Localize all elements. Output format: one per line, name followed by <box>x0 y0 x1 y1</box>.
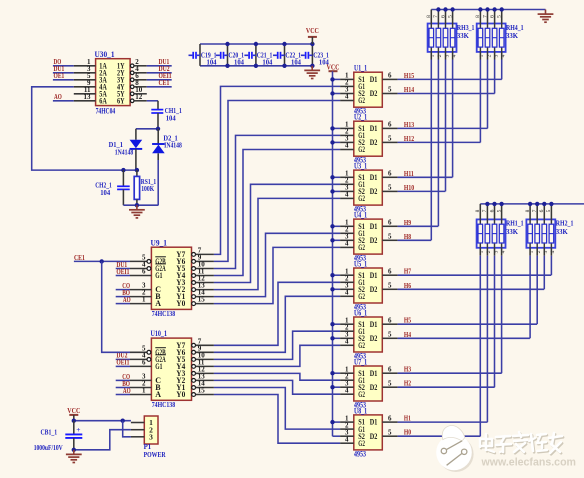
wire RH pin down to H13 <box>487 52 489 128</box>
svg-text:7: 7 <box>482 15 488 18</box>
wire P1 pin3 branch <box>123 421 131 437</box>
junction CB1 ground <box>72 448 76 452</box>
node H9 <box>404 218 411 227</box>
svg-text:U3_1: U3_1 <box>354 162 367 171</box>
wire RH pin down to H5 <box>536 248 538 324</box>
svg-text:H9: H9 <box>404 218 411 227</box>
junction cap bank <box>254 42 258 68</box>
svg-text:1: 1 <box>142 296 146 304</box>
svg-text:8: 8 <box>525 209 531 212</box>
junction VCC at U2 pin1 <box>330 126 334 130</box>
svg-text:G2: G2 <box>358 96 365 105</box>
svg-text:33K: 33K <box>506 31 518 40</box>
wire net H4 <box>398 337 530 339</box>
wire net H1 <box>398 421 488 423</box>
wire RH3/RH4 top rail to ground <box>431 9 545 11</box>
chip U2_1 4953 <box>340 113 398 165</box>
wire RH pin down to H2 <box>494 248 496 387</box>
wire U9 Y0 to U4 G2 <box>214 247 340 303</box>
power VCC main rail symbol <box>327 63 340 72</box>
svg-text:6: 6 <box>388 219 392 227</box>
svg-text:H12: H12 <box>404 134 414 143</box>
wire U9 Y5 to U2 G1 <box>214 135 340 268</box>
svg-text:VCC: VCC <box>306 26 319 35</box>
chip U30_1 74HC04 <box>74 50 147 116</box>
svg-text:+: + <box>76 425 80 434</box>
svg-text:6: 6 <box>388 365 392 373</box>
wire RH pin down to H7 <box>550 248 552 275</box>
node AO <box>53 92 74 101</box>
svg-text:D1: D1 <box>370 271 378 280</box>
svg-text:G2: G2 <box>358 341 365 350</box>
svg-text:104: 104 <box>291 58 301 67</box>
wire net H14 <box>398 93 495 95</box>
resistor network RH4 33K <box>477 23 524 52</box>
wire diode bottom node <box>123 204 158 206</box>
wire U8 S1/S2 to VCC rail <box>333 422 341 436</box>
svg-text:H2: H2 <box>404 379 411 388</box>
wire CE1 to U9 G2B <box>74 260 130 262</box>
watermark elecfans logo <box>436 426 473 472</box>
svg-text:6A: 6A <box>99 96 107 105</box>
ground below CB1 <box>66 450 82 463</box>
capacitor C21_1 104 <box>244 44 272 67</box>
node CE1 out <box>159 78 170 87</box>
wire RH pin down to H14 <box>494 52 496 94</box>
wire net AO to U9 <box>116 303 130 305</box>
svg-text:D1: D1 <box>370 173 378 182</box>
svg-text:OE1: OE1 <box>54 71 65 80</box>
svg-text:H15: H15 <box>404 71 414 80</box>
svg-text:H10: H10 <box>404 183 414 192</box>
svg-text:6: 6 <box>388 170 392 178</box>
chip U9_1 74HC138 <box>130 238 214 318</box>
svg-text:AO: AO <box>123 386 131 395</box>
svg-text:104: 104 <box>100 188 110 197</box>
svg-text:D2: D2 <box>370 432 378 441</box>
svg-text:12: 12 <box>135 93 143 101</box>
node AO <box>123 295 131 304</box>
svg-text:4: 4 <box>345 93 349 101</box>
svg-text:OEI1: OEI1 <box>116 358 129 367</box>
svg-text:IN4148: IN4148 <box>164 142 182 150</box>
node BO <box>122 379 130 388</box>
svg-text:4: 4 <box>345 191 349 199</box>
junction diode top <box>156 127 160 131</box>
capacitor C23_1 104 <box>301 44 329 67</box>
svg-text:D2: D2 <box>370 138 378 147</box>
wire RH pin down to H10 <box>445 52 447 192</box>
junction CE1 <box>100 259 104 263</box>
junction mid rail dots <box>485 202 553 206</box>
resistor network RH1 33K <box>477 219 524 248</box>
svg-text:6: 6 <box>489 15 495 18</box>
svg-text:U10_1: U10_1 <box>151 329 168 338</box>
capacitor CH1_1 104 <box>151 106 182 122</box>
node H10 <box>404 183 414 192</box>
wire RH pin down to H3 <box>501 248 503 373</box>
wire RH1/RH2 top rail <box>480 203 584 205</box>
svg-text:U2_1: U2_1 <box>354 113 367 122</box>
svg-text:4: 4 <box>345 338 349 346</box>
svg-text:1N4148: 1N4148 <box>115 148 134 156</box>
svg-text:D1: D1 <box>370 75 378 84</box>
node OE1 <box>54 71 65 80</box>
svg-text:33K: 33K <box>556 227 568 236</box>
svg-text:G1: G1 <box>155 362 162 371</box>
wire net AO to U10 <box>116 394 130 396</box>
junction VCC at U2 pin3 <box>330 140 334 144</box>
wire U10 Y1 to U8 G1 <box>214 388 340 430</box>
svg-text:13: 13 <box>84 93 92 101</box>
wire RH pin down to H9 <box>437 52 439 226</box>
svg-text:G2: G2 <box>358 292 365 301</box>
node H6 <box>404 281 411 290</box>
chip U7_1 4953 <box>340 358 398 410</box>
wire RH pin down to H0 <box>479 248 481 436</box>
svg-text:104: 104 <box>207 58 217 67</box>
svg-text:U5_1: U5_1 <box>354 260 367 269</box>
wire net H3 <box>398 372 502 374</box>
svg-text:8: 8 <box>426 15 432 18</box>
svg-text:H5: H5 <box>404 316 411 325</box>
svg-text:U30_1: U30_1 <box>95 50 115 59</box>
svg-text:5: 5 <box>496 209 502 212</box>
pin numbers RH2 top <box>525 209 552 212</box>
junction VCC at U8 pin1 <box>330 420 334 424</box>
wire VCC rail <box>332 71 334 436</box>
svg-text:4: 4 <box>345 240 349 248</box>
svg-text:U6_1: U6_1 <box>354 309 367 318</box>
wire net H10 <box>398 190 446 192</box>
wire RH pin down to H11 <box>452 52 454 177</box>
svg-text:74HC04: 74HC04 <box>96 107 116 116</box>
wire net OEI1 to U9 <box>116 275 130 277</box>
svg-text:D2: D2 <box>370 334 378 343</box>
wire U30 input nets DO/DU1/OE1 <box>53 66 74 80</box>
node DU2 <box>116 351 127 360</box>
capacitor C19_1 104 <box>189 44 217 67</box>
wire U10 Y2 to U7 G2 <box>214 380 340 394</box>
svg-text:6: 6 <box>440 15 446 18</box>
svg-text:G2: G2 <box>358 439 365 448</box>
svg-text:5: 5 <box>388 184 392 192</box>
svg-text:U7_1: U7_1 <box>354 358 367 367</box>
chip U6_1 4953 <box>340 309 398 361</box>
svg-text:5: 5 <box>388 86 392 94</box>
svg-text:AO: AO <box>54 92 62 101</box>
node AO <box>123 386 131 395</box>
svg-text:U1_1: U1_1 <box>354 64 367 73</box>
wire U9 Y2 to U3 G2 <box>214 198 340 289</box>
svg-text:6Y: 6Y <box>117 96 125 105</box>
wire U9 Y6 to U1 G2 <box>214 101 340 262</box>
power VCC bottom left <box>67 406 80 415</box>
wire net H0 <box>398 435 481 437</box>
diode D2_1 IN4148 <box>152 129 182 205</box>
junction VCC at U5 pin1 <box>330 273 334 277</box>
wire RH pin down to H4 <box>529 248 531 338</box>
node DO <box>54 57 62 66</box>
node H1 <box>404 414 411 423</box>
wire U6 S1/S2 to VCC rail <box>333 324 341 338</box>
chip U3_1 4953 <box>340 162 398 214</box>
wire U10 Y7 to U5 G1 <box>214 282 340 345</box>
svg-text:104: 104 <box>234 58 244 67</box>
node BO <box>122 288 130 297</box>
junction P1 branch <box>121 419 125 423</box>
wire cap bank bottom rail <box>200 65 312 67</box>
svg-text:H11: H11 <box>404 169 414 178</box>
svg-text:6: 6 <box>142 358 146 366</box>
svg-text:POWER: POWER <box>144 450 166 459</box>
pin numbers RH4 bottom <box>479 54 506 57</box>
wire RH pin down to H1 <box>486 248 488 422</box>
svg-text:8: 8 <box>475 15 481 18</box>
chip U8_1 4953 <box>340 406 398 458</box>
wire U1 S1/S2 to VCC rail <box>333 79 341 93</box>
junction cap bank <box>310 42 314 68</box>
svg-text:74HC138: 74HC138 <box>152 309 176 318</box>
wire RH pin down to H8 <box>430 52 432 240</box>
wire net H7 <box>398 274 552 276</box>
node H12 <box>404 134 414 143</box>
svg-text:100K: 100K <box>141 184 154 193</box>
svg-text:4: 4 <box>345 386 349 394</box>
node H5 <box>404 316 411 325</box>
svg-text:5: 5 <box>546 209 552 212</box>
svg-text:7: 7 <box>482 209 488 212</box>
svg-text:5: 5 <box>388 331 392 339</box>
wire U9 Y1 to U4 G1 <box>214 233 340 296</box>
svg-text:4: 4 <box>345 142 349 150</box>
junction VCC at U3 pin3 <box>330 189 334 193</box>
svg-text:H1: H1 <box>404 414 411 423</box>
node CO <box>122 372 130 381</box>
svg-text:15: 15 <box>198 387 206 395</box>
wire net H9 <box>398 225 439 227</box>
junction VCC CB1 <box>72 419 76 423</box>
wire net DU1 to U9 <box>116 268 130 270</box>
node H13 <box>404 120 414 129</box>
svg-text:Y0: Y0 <box>176 299 185 308</box>
junction VCC at U4 pin1 <box>330 224 334 228</box>
wire net CO to U9 <box>116 289 130 291</box>
ground below C23 <box>304 66 320 79</box>
svg-text:33K: 33K <box>506 227 518 236</box>
svg-text:H8: H8 <box>404 232 411 241</box>
junction VCC at U6 pin3 <box>330 336 334 340</box>
node DU2 out <box>159 64 170 73</box>
node H0 <box>404 428 411 437</box>
svg-text:G2: G2 <box>358 243 365 252</box>
capacitor C20_1 104 <box>216 44 244 67</box>
svg-text:H3: H3 <box>404 365 411 374</box>
wire RH3/RH4 top pin stubs <box>431 10 501 24</box>
power VCC above C23 <box>306 26 319 44</box>
svg-text:Y0: Y0 <box>176 390 185 399</box>
node H2 <box>404 379 411 388</box>
svg-text:D2: D2 <box>370 89 378 98</box>
node CO <box>122 281 130 290</box>
svg-text:6: 6 <box>388 316 392 324</box>
wire net H2 <box>398 386 495 388</box>
node H14 <box>404 85 414 94</box>
chip U10_1 74HC138 <box>130 329 214 409</box>
svg-text:OEI1: OEI1 <box>116 267 129 276</box>
svg-text:D1: D1 <box>370 124 378 133</box>
svg-text:www.elecfans.com: www.elecfans.com <box>481 456 576 468</box>
wire U9 Y7 to U1 G1 <box>214 86 340 254</box>
wire net H12 <box>398 141 481 143</box>
wire net H5 <box>398 323 537 325</box>
svg-text:6: 6 <box>388 267 392 275</box>
junction VCC at U6 pin1 <box>330 322 334 326</box>
node H8 <box>404 232 411 241</box>
node H3 <box>404 365 411 374</box>
wire diode top node <box>136 128 159 130</box>
svg-text:5: 5 <box>388 428 392 436</box>
wire U2 S1/S2 to VCC rail <box>333 128 341 142</box>
svg-text:U8_1: U8_1 <box>354 406 367 415</box>
svg-text:AO: AO <box>123 295 131 304</box>
pin numbers RH2 bottom <box>529 250 556 253</box>
node OEI1 out <box>159 71 172 80</box>
ground below RS1_1 <box>129 205 145 218</box>
junction VCC at U1 pin3 <box>330 91 334 95</box>
junction top rail dots <box>436 7 504 11</box>
wire U10 Y3 to U7 G1 <box>214 373 340 380</box>
wire net H11 <box>398 176 453 178</box>
pin numbers RH4 top <box>475 15 502 18</box>
wire RH1/RH2 top pin stubs <box>480 204 551 220</box>
svg-text:3: 3 <box>149 432 153 441</box>
wire net H6 <box>398 288 544 290</box>
junction CH2 top <box>121 168 125 172</box>
node H4 <box>404 330 411 339</box>
svg-text:H0: H0 <box>404 428 411 437</box>
svg-text:4: 4 <box>345 435 349 443</box>
wire U10 Y0 to U8 G2 <box>214 395 340 444</box>
wire net CO to U10 <box>116 379 130 381</box>
svg-text:H14: H14 <box>404 85 414 94</box>
svg-text:104: 104 <box>166 114 176 123</box>
node CE1 left <box>74 253 85 262</box>
svg-text:6: 6 <box>388 72 392 80</box>
diode D1_1 1N4148 <box>109 129 143 170</box>
svg-text:D2: D2 <box>370 383 378 392</box>
svg-text:5: 5 <box>497 15 503 18</box>
junction VCC at U1 pin1 <box>330 77 334 81</box>
svg-text:U9_1: U9_1 <box>151 238 168 247</box>
junction VCC at U5 pin3 <box>330 287 334 291</box>
svg-text:H13: H13 <box>404 120 414 129</box>
svg-text:H6: H6 <box>404 281 411 290</box>
junction VCC at U4 pin3 <box>330 238 334 242</box>
svg-text:G2: G2 <box>358 390 365 399</box>
wire U9 Y4 to U2 G2 <box>214 150 340 276</box>
wire U9 Y3 to U3 G1 <box>214 184 340 282</box>
svg-text:6: 6 <box>388 414 392 422</box>
svg-text:6: 6 <box>539 209 545 212</box>
junction VCC at U7 pin3 <box>330 385 334 389</box>
wire U10 Y5 to U6 G1 <box>214 331 340 359</box>
wire U4 S1/S2 to VCC rail <box>333 226 341 240</box>
svg-text:G1: G1 <box>155 271 162 280</box>
svg-text:A: A <box>155 390 161 399</box>
svg-text:D2: D2 <box>370 285 378 294</box>
chip U1_1 4953 <box>340 64 398 116</box>
pin numbers RH3 top <box>426 15 453 18</box>
node DU1 <box>116 260 127 269</box>
node H11 <box>404 169 414 178</box>
svg-text:6: 6 <box>142 268 146 276</box>
wire U30 pin9 to diode node <box>32 87 137 170</box>
watermark url text <box>481 456 576 468</box>
ground top right <box>538 10 554 23</box>
capacitor CB1_1 1000uF/10V <box>34 421 83 452</box>
svg-text:33K: 33K <box>457 31 469 40</box>
wire net H8 <box>398 239 432 241</box>
wire U5 S1/S2 to VCC rail <box>333 275 341 289</box>
junction VCC at U7 pin1 <box>330 371 334 375</box>
svg-text:1: 1 <box>142 387 146 395</box>
wire net DU2 to U10 <box>116 358 130 360</box>
svg-text:G2: G2 <box>358 145 365 154</box>
resistor network RH3 33K <box>428 23 475 52</box>
wire U30 output nets <box>147 66 172 87</box>
svg-text:6: 6 <box>388 121 392 129</box>
node DU1 <box>54 64 65 73</box>
resistor RS1_1 100K <box>134 170 156 205</box>
junction ground node <box>135 203 139 207</box>
svg-text:5: 5 <box>388 135 392 143</box>
capacitor C22_1 104 <box>273 44 301 67</box>
svg-text:5: 5 <box>447 15 453 18</box>
svg-text:CB1_1: CB1_1 <box>41 428 58 437</box>
junction RS1 top <box>135 168 139 172</box>
junction cap bank <box>225 42 229 68</box>
wire U30 pin12 to CH1_1 <box>147 101 158 110</box>
svg-text:CE1: CE1 <box>159 78 170 87</box>
svg-text:D1: D1 <box>370 369 378 378</box>
svg-text:U4_1: U4_1 <box>354 211 367 220</box>
svg-text:H4: H4 <box>404 330 411 339</box>
wire VCC to P1 pin1 <box>74 415 131 421</box>
node H7 <box>404 267 411 276</box>
wire U10 Y4 to U6 G2 <box>214 345 340 366</box>
wire P1 pin2 to ground <box>74 430 131 450</box>
svg-text:74HC138: 74HC138 <box>152 400 176 409</box>
watermark chinese brush text <box>480 432 563 454</box>
pin numbers RH3 bottom <box>430 54 457 57</box>
svg-text:5: 5 <box>388 233 392 241</box>
node DU1 out <box>159 57 170 66</box>
wire net H15 <box>398 78 502 80</box>
wire RH pin down to H15 <box>501 52 503 80</box>
svg-text:D1: D1 <box>370 418 378 427</box>
wire U10 Y6 to U5 G2 <box>214 296 340 352</box>
pin numbers RH1 top <box>475 209 502 212</box>
svg-text:VCC: VCC <box>67 406 80 415</box>
node OEI1 <box>116 358 129 367</box>
wire RH pin down to H6 <box>543 248 545 289</box>
svg-text:D1: D1 <box>370 222 378 231</box>
wire net BO to U9 <box>116 296 130 298</box>
svg-text:A: A <box>155 299 161 308</box>
svg-text:7: 7 <box>532 209 538 212</box>
node OEI1 <box>116 267 129 276</box>
